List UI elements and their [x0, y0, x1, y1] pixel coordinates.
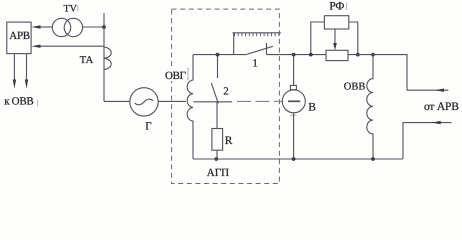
contact 1 left post — [233, 33, 235, 55]
wire top bus to right corner — [348, 55, 407, 91]
РФ arrow shaft — [334, 29, 336, 44]
dashed box АГП — [172, 9, 280, 183]
svg-text:от АРВ: от АРВ — [424, 101, 459, 113]
svg-text:ТА: ТА — [80, 55, 94, 66]
exciter В bar symbol — [288, 100, 300, 102]
node R-bottom — [214, 157, 218, 161]
wire resistor R to bottom bus — [216, 150, 218, 159]
contact 2 post — [217, 55, 219, 78]
svg-text:ОВВ: ОВВ — [344, 82, 366, 93]
node exciter bottom — [292, 157, 296, 161]
breaker latch bar (hatched) — [233, 33, 281, 36]
scan tick after к ОВВ — [37, 100, 39, 107]
arrow от АРВ upper — [435, 89, 444, 92]
wire bus to generator — [104, 100, 130, 102]
wire к ОВВ right — [26, 54, 28, 81]
winding ОВВ (exciter field) — [367, 55, 373, 159]
node ОВВ bottom — [371, 157, 375, 161]
wire exciter top riser — [293, 55, 295, 86]
wire TV to АРВ — [40, 26, 53, 28]
resistor РФ series body — [326, 50, 348, 60]
wire РФ right link — [349, 22, 358, 55]
wire stator bus vertical — [103, 13, 105, 101]
node РФ left — [309, 53, 313, 57]
label ОВГ backing — [164, 68, 186, 82]
contact 1 right post — [266, 43, 268, 55]
arrow into АРВ from TV — [31, 25, 40, 28]
svg-text:В: В — [308, 102, 316, 114]
wire от АРВ lower — [403, 123, 452, 159]
resistor R — [212, 129, 223, 151]
svg-text:TV: TV — [64, 3, 78, 14]
wire от АРВ upper — [407, 89, 448, 91]
scan smudge under В — [290, 114, 297, 116]
svg-text:ОВГ: ОВГ — [165, 70, 186, 82]
discharge unit РФ body — [324, 16, 348, 29]
arrow к ОВВ right — [25, 80, 28, 89]
svg-text:РФ: РФ — [329, 0, 344, 12]
contact 1 blade — [245, 46, 273, 55]
scan tick after РФ — [346, 3, 348, 11]
arrow к ОВВ left — [13, 80, 16, 89]
svg-text:1: 1 — [252, 57, 258, 69]
svg-text:к ОВВ: к ОВВ — [4, 96, 33, 108]
generator Г sine symbol — [135, 99, 153, 105]
exciter В brush — [290, 85, 296, 89]
arrow от АРВ lower — [432, 121, 441, 124]
scan streak left of winding — [187, 68, 189, 81]
wire (faint) to exciter В — [237, 100, 283, 102]
node exciter top — [292, 53, 296, 57]
winding ОВ1 (generator field) — [187, 55, 193, 159]
РФ arrowhead — [333, 43, 337, 50]
wire top bus (right of contact 1) — [267, 54, 327, 56]
svg-text:Г: Г — [145, 121, 151, 133]
exciter В circle — [282, 90, 305, 113]
svg-text:R: R — [225, 135, 233, 147]
wire generator to field winding — [158, 100, 186, 102]
node РФ right — [356, 53, 360, 57]
contact 2 blade — [211, 83, 218, 103]
wire TV to node A — [83, 26, 104, 28]
scan tick after TV — [77, 6, 79, 12]
wire contact 2 to resistor R — [216, 102, 218, 129]
wire TA to АРВ — [40, 45, 105, 47]
block U1 АРВ (voltage regulator) — [7, 22, 31, 53]
wire РФ left link — [311, 22, 325, 55]
svg-text:АРВ: АРВ — [9, 30, 30, 42]
svg-text:2: 2 — [223, 85, 229, 97]
transformer TV — [52, 18, 70, 36]
generator Г circle — [130, 88, 158, 116]
current transformer TA — [104, 47, 111, 70]
node contact-2 branch — [216, 53, 220, 57]
arrow into АРВ from TA — [31, 45, 40, 48]
wire к ОВВ left — [13, 54, 15, 81]
wire top bus (left of contact 1) — [193, 54, 245, 56]
wire bottom bus — [193, 158, 403, 160]
node ОВВ top — [371, 53, 375, 57]
node A junction — [102, 25, 106, 29]
wire exciter bottom riser — [293, 113, 295, 159]
wire field node to contact 2 node — [194, 101, 233, 103]
svg-text:АГП: АГП — [207, 167, 229, 179]
